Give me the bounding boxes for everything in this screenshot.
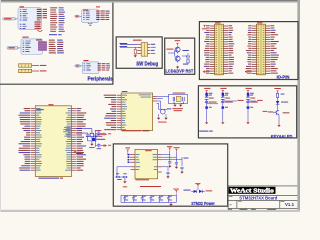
wire capsule to J1 <box>17 18 18 20</box>
VCAP arrow below <box>74 151 83 154</box>
svg-text:KEY&&LED: KEY&&LED <box>271 134 293 139</box>
connector J2 body <box>82 9 99 22</box>
port capsule USB1 <box>3 18 17 20</box>
CN1 designator <box>215 22 220 23</box>
CN1 right labels <box>228 25 234 73</box>
connector J3 body <box>21 39 42 54</box>
port capsule P2 <box>75 15 80 17</box>
wire capsule to J3 <box>19 47 21 49</box>
key switch K1 <box>204 88 216 124</box>
J4 pins right <box>98 63 106 70</box>
MCU U1 body <box>35 106 71 177</box>
J1 lower pin rows <box>35 22 41 29</box>
svg-text:Peripherals: Peripherals <box>88 77 113 83</box>
U2 right circuit <box>162 146 189 178</box>
osc circuit LSE <box>157 101 172 123</box>
SWD wires left <box>120 44 137 47</box>
KEY&&LED box <box>198 86 296 138</box>
svg-text:WeAct Studio: WeAct Studio <box>230 189 274 195</box>
port capsule P3 <box>7 47 19 50</box>
SW Debug box <box>116 37 162 68</box>
transistor Q3 <box>263 110 290 127</box>
net list right of J3 col2 <box>57 40 64 54</box>
J4 designator <box>84 60 89 61</box>
svg-text:LCD&DVP RST: LCD&DVP RST <box>166 69 194 75</box>
U1 part number below <box>38 178 63 179</box>
J1 designator <box>20 6 24 7</box>
header H1 <box>19 64 47 67</box>
U1 inner mid names <box>63 127 70 137</box>
HSE crystal circuit <box>76 129 103 148</box>
J3 purple component <box>38 42 46 51</box>
P5 pins left <box>137 44 150 53</box>
vcc arrow LCD <box>175 40 181 45</box>
connector CN2 <box>252 24 270 75</box>
K2 out wire <box>223 100 237 102</box>
U1 left pins <box>31 109 35 171</box>
blue note above netlist <box>49 34 62 35</box>
J3 inner names <box>23 41 31 52</box>
page bottom edge <box>0 210 300 212</box>
SWD wire net labels <box>120 43 128 47</box>
bottom row small text <box>229 208 277 211</box>
net list right of J1 col1 <box>50 7 57 31</box>
LCD&DVP RST box <box>165 38 195 74</box>
resistor R in SWD <box>134 49 136 54</box>
K3 out wire <box>248 100 256 102</box>
CN1 bottom arrow <box>203 71 210 73</box>
CN1 left labels <box>204 25 210 73</box>
J1 inner pin names <box>20 9 28 29</box>
CN2 designator <box>257 22 262 23</box>
KEY note bottom left <box>199 131 213 132</box>
title block frame <box>228 186 297 210</box>
page right edge <box>297 0 300 212</box>
U1B left pins <box>117 95 121 130</box>
U1 right inner names <box>65 108 71 170</box>
LCD resistor right <box>187 59 189 63</box>
gnd LCD <box>177 66 179 67</box>
connector P5 body <box>141 43 147 57</box>
U1B inner names <box>122 95 127 130</box>
U1 left labels <box>18 108 30 171</box>
J4 inner names <box>84 63 91 70</box>
U1B part number below <box>122 130 149 131</box>
net list right of J3 col1 <box>49 40 56 54</box>
J2 labels right <box>105 11 109 20</box>
U1B top-right inner <box>139 94 152 97</box>
LCD transistor Q1 <box>175 47 180 52</box>
SWD label red <box>133 40 142 41</box>
regulator U2 body <box>135 149 158 178</box>
svg-text:STM32 Power: STM32 Power <box>191 201 215 206</box>
STM32 Power box <box>113 144 227 206</box>
port capsule P4 <box>75 65 81 67</box>
LCD red label left <box>166 49 173 50</box>
connector J4 body <box>82 62 99 74</box>
wire capsule to J4 <box>81 65 83 67</box>
U2 vcc top-left <box>125 147 130 154</box>
connector CN1 <box>210 24 228 75</box>
U1 left inner names <box>36 108 42 170</box>
key switch K2 <box>220 88 232 124</box>
U2 right pins <box>158 155 162 172</box>
U1B right pins top <box>153 96 157 101</box>
LED D1 branch <box>274 88 288 111</box>
CN2 bottom arrow <box>245 71 252 73</box>
connector J1 body <box>18 8 41 30</box>
J4 labels right <box>106 63 110 70</box>
U2 left pins <box>128 154 135 170</box>
U1B body <box>121 93 152 131</box>
WeAct Studio banner <box>229 187 276 194</box>
J2 designator <box>83 6 100 10</box>
J2 pins right <box>96 11 105 21</box>
U2 designator <box>145 150 152 151</box>
wire left cap C10 <box>116 167 131 187</box>
P5 labels right <box>151 44 156 54</box>
LCD cap right <box>182 53 190 59</box>
LCD blue labels <box>182 50 188 65</box>
svg-text:SW Debug: SW Debug <box>136 62 158 68</box>
J1 pin block stripes <box>37 9 47 29</box>
osc box X2 <box>157 93 188 112</box>
J1 gnd arc <box>38 30 43 31</box>
U1 designator <box>48 104 53 105</box>
J3 designator <box>22 37 28 38</box>
svg-text:IO-PIN: IO-PIN <box>277 75 290 80</box>
U1B left labels <box>104 95 116 130</box>
page top edge <box>0 0 300 1</box>
J2 inner names <box>83 11 90 20</box>
Peripherals section border <box>0 3 113 85</box>
U1 top inner text <box>36 108 43 111</box>
IO-PIN box <box>199 22 298 80</box>
J3 top pins <box>36 39 42 40</box>
U1B designator <box>122 91 128 92</box>
LCD wire left <box>168 50 175 57</box>
power LED D2 <box>183 183 212 193</box>
CN2 left labels <box>246 25 252 73</box>
U2 inner names <box>136 154 140 170</box>
CN1 vcc arrow <box>202 25 207 29</box>
net list right of J1 col2 <box>59 7 65 31</box>
vcap circuit left of power box <box>92 130 111 149</box>
U2 part no below <box>135 179 149 180</box>
svg-text:V1.1: V1.1 <box>285 202 295 207</box>
gnd in SWD <box>134 54 136 55</box>
CN2 right labels <box>270 25 278 73</box>
LCD transistor Q2 <box>175 56 180 61</box>
J3 purple stripes <box>39 42 46 49</box>
key K1 wire out <box>207 103 218 105</box>
U1 right pins <box>72 109 76 171</box>
wire capsule to J2 <box>80 15 82 17</box>
svg-text:STM32H7XX Board: STM32H7XX Board <box>239 196 277 201</box>
page left edge <box>0 0 1 212</box>
U1 right labels <box>77 108 87 171</box>
key switch K3 <box>246 88 258 124</box>
J2 gnd arc <box>88 23 93 26</box>
decoupling cap row <box>121 186 179 206</box>
header H2 <box>19 69 47 72</box>
title small texts <box>229 196 284 205</box>
